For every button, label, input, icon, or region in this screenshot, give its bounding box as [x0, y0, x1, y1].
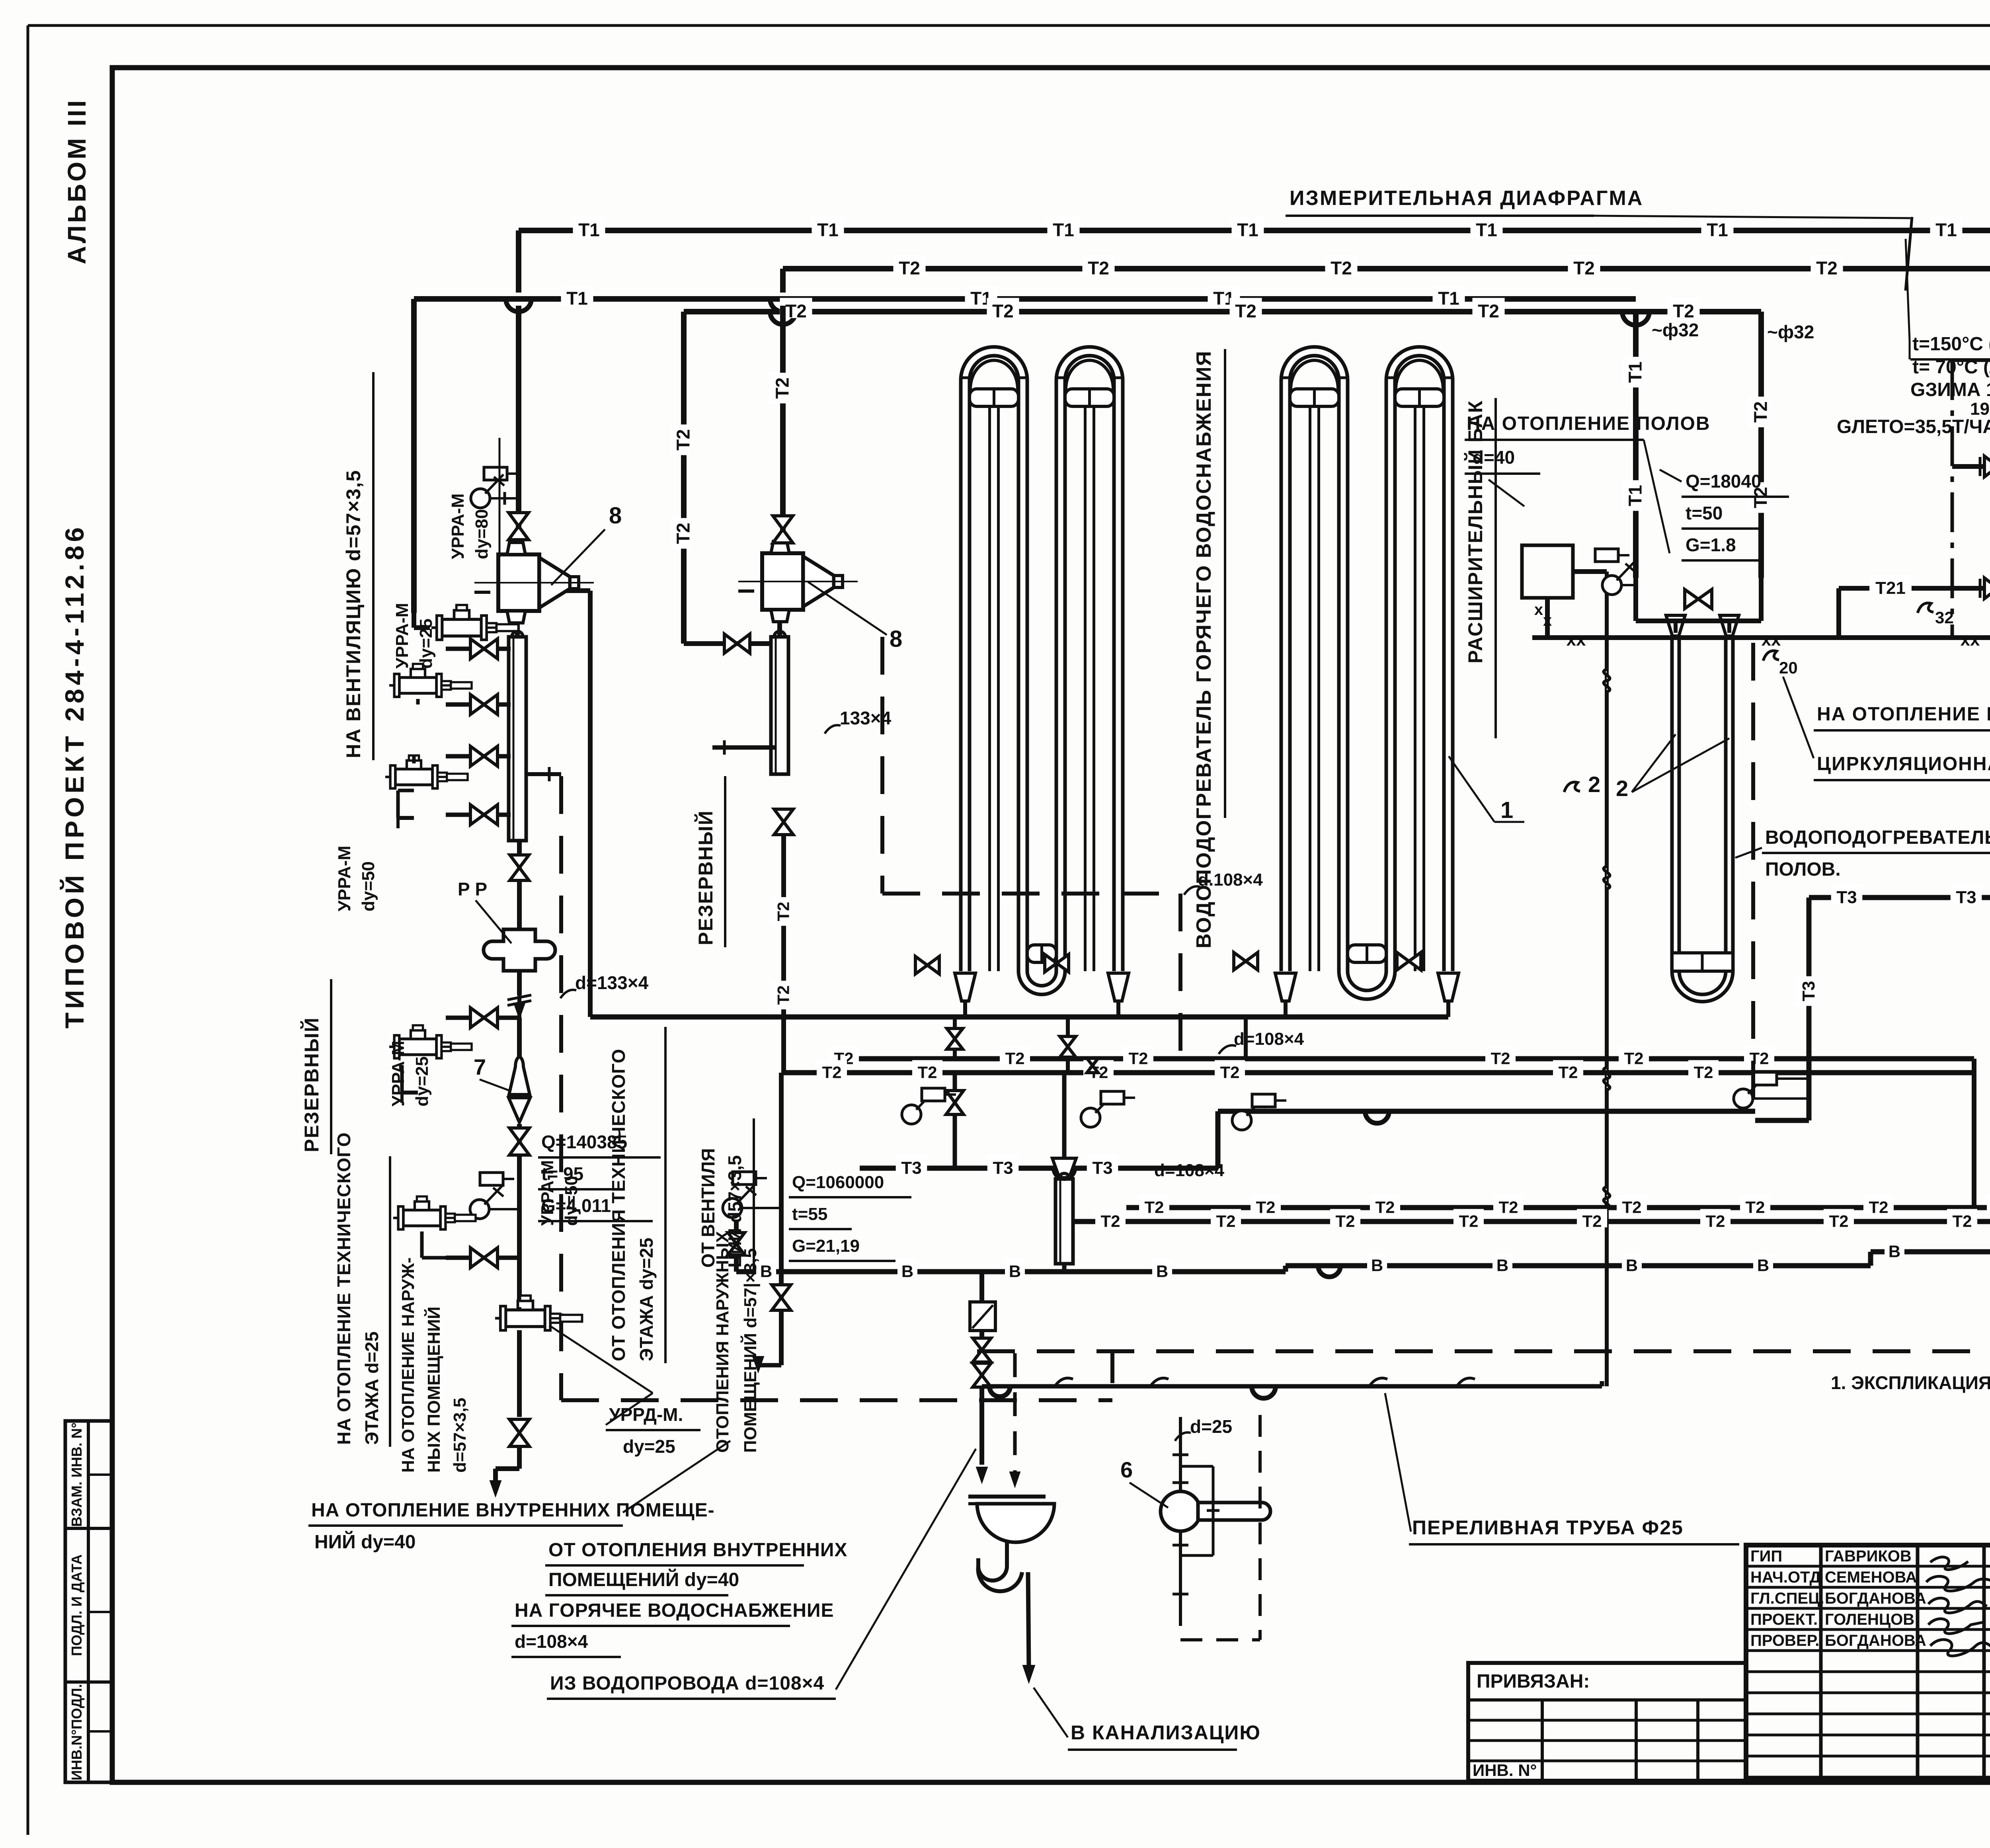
gauges row — [902, 1105, 921, 1124]
standby arrow end — [758, 1363, 781, 1368]
pipe label T2 vertical — [1748, 396, 1768, 427]
svg-text:Т2: Т2 — [1869, 1198, 1888, 1216]
svg-text:GЗИМА 18,8Т/ЧАС: GЗИМА 18,8Т/ЧАС — [1910, 379, 1990, 400]
elevator unit 8 left — [498, 554, 539, 611]
svg-text:Т2: Т2 — [774, 902, 792, 921]
svg-text:В: В — [760, 1262, 772, 1280]
svg-text:Т1: Т1 — [566, 288, 588, 309]
overflow hump — [989, 1386, 1010, 1397]
hose connection circle — [1161, 1491, 1200, 1531]
svg-text:t=150°C (ЗИМОЙ): t=150°C (ЗИМОЙ) — [1912, 333, 1990, 355]
label T2 lower a — [1987, 1195, 1990, 1214]
branch stub with valve — [446, 754, 511, 759]
pipe break squiggle — [1604, 866, 1610, 889]
svg-text:ГЛ.СПЕЦ.: ГЛ.СПЕЦ. — [1750, 1590, 1824, 1607]
gauge on riser A — [471, 489, 490, 508]
svg-text:Т3: Т3 — [993, 1158, 1013, 1178]
pipe label T2 — [1472, 298, 1504, 318]
mud separator 3 — [1062, 1073, 1067, 1158]
svg-text:d=108×4: d=108×4 — [515, 1631, 588, 1652]
svg-text:Т2: Т2 — [1498, 1198, 1518, 1216]
svg-text:Т2: Т2 — [1144, 1198, 1164, 1216]
svg-text:Т3: Т3 — [1799, 981, 1818, 1001]
pocket on riser A — [484, 467, 507, 480]
gauge standby — [723, 1198, 742, 1218]
svg-text:Т2: Т2 — [1673, 301, 1694, 322]
dashed box right drop — [1178, 894, 1182, 1071]
svg-text:20: 20 — [1779, 658, 1798, 677]
elevator unit 8 right — [762, 553, 803, 610]
pipe elevator L to vessel — [515, 623, 520, 637]
valve below vessel R — [774, 809, 793, 835]
svg-text:НЫХ ПОМЕЩЕНИЙ: НЫХ ПОМЕЩЕНИЙ — [423, 1307, 444, 1473]
svg-text:Т1: Т1 — [1053, 220, 1074, 240]
svg-text:ГОЛЕНЦОВ: ГОЛЕНЦОВ — [1825, 1611, 1914, 1628]
svg-text:Т2: Т2 — [1558, 1063, 1578, 1081]
svg-text:ВОДОПОДОГРЕВАТЕЛЬ ГОРЯЧЕГО ВОД: ВОДОПОДОГРЕВАТЕЛЬ ГОРЯЧЕГО ВОДОСНАБЖЕНИЯ — [1192, 350, 1215, 948]
svg-text:ПРОЕКТ.: ПРОЕКТ. — [1750, 1611, 1818, 1628]
riser from T2 main to elevator 2 — [780, 269, 786, 293]
svg-text:Р Р: Р Р — [458, 879, 487, 900]
T3 line low — [860, 1166, 1218, 1171]
coil outlet cone — [1108, 973, 1129, 1001]
pipe break double tick — [507, 995, 531, 1000]
svg-text:133×4: 133×4 — [840, 708, 892, 728]
overflow line — [982, 1384, 1602, 1389]
svg-text:ПРИВЯЗАН:: ПРИВЯЗАН: — [1477, 1671, 1590, 1692]
svg-text:d=40: d=40 — [1473, 447, 1515, 468]
svg-text:dу=25: dу=25 — [416, 619, 436, 669]
pipe label T1 — [1470, 217, 1502, 237]
pipe T2 return main — [783, 266, 1990, 271]
heat exchanger coil U3 — [1281, 347, 1348, 380]
svg-text:d=108×4: d=108×4 — [1154, 1161, 1225, 1180]
hump B — [1318, 1266, 1340, 1277]
svg-text:dу=80: dу=80 — [472, 509, 492, 559]
floor heating exchanger tube A — [1670, 637, 1674, 971]
svg-text:dу=25: dу=25 — [623, 1436, 675, 1457]
B water line — [736, 1269, 1286, 1274]
leader vodopodogrev otopl — [1735, 848, 1762, 858]
middle T2 right drops — [1972, 1059, 1976, 1208]
branch stub dy50 — [446, 1016, 519, 1020]
label T3 vertical — [1796, 976, 1815, 1006]
riser3 — [1244, 1017, 1248, 1059]
svg-text:Т1: Т1 — [1438, 288, 1459, 309]
svg-text:НАЧ.ОТД: НАЧ.ОТД — [1750, 1569, 1821, 1586]
svg-text:Т2: Т2 — [1128, 1049, 1148, 1067]
tank drop pipe — [1545, 598, 1550, 638]
label flow 20 — [1763, 651, 1779, 661]
pipe label T2 — [1667, 298, 1699, 318]
wave crossing on T3 — [1054, 1168, 1075, 1179]
regulator URRA-5 — [393, 1196, 476, 1229]
heat exchanger coil U2 — [1056, 347, 1123, 380]
svg-text:НА ГОРЯЧЕЕ ВОДОСНАБЖЕНИЕ: НА ГОРЯЧЕЕ ВОДОСНАБЖЕНИЕ — [515, 1600, 834, 1621]
svg-text:ИЗ ВОДОПРОВОДА d=108×4: ИЗ ВОДОПРОВОДА d=108×4 — [550, 1673, 824, 1694]
svg-text:dу=50: dу=50 — [562, 1176, 581, 1226]
overflow squiggles — [1055, 1378, 1073, 1386]
svg-text:НА ОТОПЛЕНИЕ НАРУЖ-: НА ОТОПЛЕНИЕ НАРУЖ- — [398, 1257, 418, 1473]
svg-text:Q=1060000: Q=1060000 — [792, 1173, 884, 1192]
svg-text:Т3: Т3 — [1956, 888, 1976, 907]
svg-text:Т2: Т2 — [822, 1063, 841, 1081]
pipe break squiggle — [1604, 1187, 1610, 1209]
svg-text:НА ОТОПЛЕНИЕ ПОЛОВ: НА ОТОПЛЕНИЕ ПОЛОВ — [1467, 413, 1711, 434]
stamp box sub-dividers — [88, 1473, 112, 1476]
orifice diaphragm stroke — [1906, 217, 1912, 291]
label B — [1492, 1253, 1512, 1272]
pipe label T2 — [987, 298, 1019, 318]
svg-text:Т2: Т2 — [1745, 1198, 1765, 1216]
pipe label T2 — [1229, 298, 1262, 318]
tank feed pipe — [1573, 569, 1607, 574]
title block grid — [1746, 1545, 1990, 1781]
label T2 lower b — [1824, 1209, 1854, 1227]
svg-text:d=25: d=25 — [1190, 1416, 1232, 1437]
regulator URRA-2 — [389, 664, 472, 697]
label 32 T21 — [1918, 603, 1933, 613]
svg-text:РЕЗЕРВНЫЙ: РЕЗЕРВНЫЙ — [694, 810, 717, 945]
svg-text:Т2: Т2 — [917, 1063, 937, 1081]
svg-text:ПРОВЕР.: ПРОВЕР. — [1750, 1632, 1819, 1649]
standby main drop — [781, 834, 786, 1073]
svg-text:8: 8 — [890, 626, 902, 652]
svg-text:d.108×4: d.108×4 — [1198, 870, 1263, 890]
svg-text:xx: xx — [1961, 630, 1980, 650]
label B — [897, 1259, 917, 1278]
regulator URRA-3 — [385, 755, 468, 788]
URRD below — [517, 1330, 522, 1417]
valve downcomer — [947, 1028, 963, 1049]
svg-text:УРРА-М: УРРА-М — [448, 494, 468, 559]
jumper valve between T2 pair — [1091, 1059, 1094, 1073]
svg-text:Т2: Т2 — [1088, 258, 1109, 279]
labels T3 low — [896, 1155, 927, 1174]
label T2 lower b — [1095, 1209, 1126, 1227]
diaphragm leader — [1594, 216, 1910, 218]
svg-text:Т2: Т2 — [1622, 1198, 1641, 1216]
label B — [1152, 1259, 1172, 1278]
svg-text:Т2: Т2 — [774, 985, 792, 1005]
svg-text:t= 70°C (ЛЕТОМ): t= 70°C (ЛЕТОМ) — [1912, 357, 1990, 378]
svg-text:ПЕРЕЛИВНАЯ ТРУБА Ф25: ПЕРЕЛИВНАЯ ТРУБА Ф25 — [1412, 1516, 1684, 1539]
svg-text:ПОЛОВ.: ПОЛОВ. — [1765, 859, 1841, 880]
svg-text:Т1: Т1 — [817, 220, 839, 240]
svg-text:2: 2 — [1616, 776, 1628, 801]
svg-text:ПОМЕЩЕНИЙ dу=40: ПОМЕЩЕНИЙ dу=40 — [548, 1569, 739, 1590]
svg-text:Т2: Т2 — [1235, 301, 1256, 322]
label T2 lower b — [1453, 1209, 1484, 1227]
pipe label T2 — [1325, 255, 1357, 275]
pipe label T1 — [1231, 217, 1264, 237]
svg-text:~ф32: ~ф32 — [1652, 320, 1699, 340]
pipe label T2 — [1082, 255, 1114, 275]
label T2 lower a — [1617, 1195, 1647, 1214]
svg-text:В: В — [1496, 1256, 1508, 1274]
floor heating exchanger tube B — [1724, 637, 1728, 971]
pipe label T1 — [1701, 217, 1733, 237]
pocket on T1 riser — [1595, 549, 1618, 562]
svg-text:x: x — [1543, 612, 1552, 629]
svg-text:ПОДЛ. И ДАТА: ПОДЛ. И ДАТА — [68, 1554, 85, 1656]
coil outlet cone — [1438, 973, 1459, 1001]
svg-text:УРРА-М: УРРА-М — [388, 1041, 408, 1106]
main to cone 7 — [517, 1018, 522, 1067]
svg-text:Т2: Т2 — [1459, 1212, 1478, 1230]
svg-text:xx: xx — [1762, 630, 1781, 650]
label T2 on riser 2 — [769, 373, 790, 403]
svg-text:Т2: Т2 — [785, 301, 807, 322]
standby lower drop — [779, 1073, 784, 1365]
svg-text:x: x — [1534, 601, 1543, 619]
B line left stub — [734, 1222, 739, 1272]
coil supply riser — [588, 591, 593, 1017]
svg-text:ГИП: ГИП — [1750, 1547, 1782, 1565]
svg-text:ИНВ. N°: ИНВ. N° — [1473, 1761, 1537, 1780]
floor heating header — [1633, 578, 1638, 621]
valve below cone — [517, 1124, 522, 1170]
svg-text:Т1: Т1 — [1935, 220, 1957, 240]
floor heating tube bottom bend — [1672, 971, 1733, 1002]
svg-text:УРРА-М: УРРА-М — [392, 603, 412, 669]
svg-text:ТИПОВОЙ ПРОЕКТ 284-4-112.86: ТИПОВОЙ ПРОЕКТ 284-4-112.86 — [59, 524, 89, 1028]
label T2 lower a — [1370, 1195, 1400, 1214]
label T2 middle b — [1688, 1060, 1719, 1079]
suction valve P1 — [1984, 456, 1990, 477]
svg-text:В: В — [1371, 1256, 1383, 1274]
hose bracket — [1182, 1465, 1213, 1468]
svg-text:УРРА-М: УРРА-М — [538, 1160, 557, 1226]
svg-text:Т3: Т3 — [901, 1158, 921, 1178]
gauge at T3 riser — [1734, 1089, 1753, 1108]
pipe label T1 — [1208, 285, 1240, 306]
dashed box top — [882, 892, 1180, 896]
drain down pipe — [1028, 1572, 1029, 1668]
label T2 middle b — [1553, 1060, 1583, 1079]
label T2 middle a — [1485, 1046, 1516, 1065]
pocket main low — [480, 1173, 503, 1185]
riser2 to T2 mid — [1066, 1017, 1070, 1073]
regulator URRA dy80 — [431, 605, 519, 640]
label T2 middle a — [1123, 1046, 1153, 1065]
heat exchanger coil U4 — [1386, 347, 1453, 380]
gauge on T1 riser — [1602, 576, 1621, 595]
svg-text:БОГДАНОВА: БОГДАНОВА — [1825, 1590, 1926, 1607]
svg-text:1: 1 — [1500, 797, 1513, 823]
pipe label T1 — [573, 217, 605, 237]
coil bottom bend U3-U4 — [1339, 971, 1395, 999]
svg-text:НА ВЕНТИЛЯЦИЮ d=57×3,5: НА ВЕНТИЛЯЦИЮ d=57×3,5 — [342, 470, 365, 758]
svg-text:Т2: Т2 — [1005, 1049, 1024, 1067]
pipe label T1 — [561, 285, 593, 306]
privyazan box — [1468, 1663, 1746, 1781]
label B — [1885, 1239, 1904, 1258]
tank leader — [1489, 480, 1524, 506]
svg-text:Т2: Т2 — [1491, 1049, 1510, 1067]
valve on riser to elevator R — [773, 516, 793, 543]
pipe T1 branch header — [414, 296, 1636, 302]
dashed box left — [880, 637, 884, 894]
mud separator right — [771, 637, 788, 774]
compensator box — [970, 1302, 995, 1331]
hose unit riser — [1179, 1417, 1182, 1492]
floor heating supply line xx — [1532, 635, 1990, 640]
coil outlet cone — [955, 973, 975, 1001]
svg-text:Т1: Т1 — [1625, 485, 1646, 506]
svg-text:БОГДАНОВА: БОГДАНОВА — [1825, 1632, 1926, 1649]
svg-text:2: 2 — [1588, 772, 1600, 797]
label T2 middle b — [1215, 1060, 1245, 1079]
pipe label T1 vertical — [1622, 357, 1643, 387]
leader na otopl vnutr — [623, 1441, 730, 1512]
label T2 lower a — [1740, 1195, 1770, 1214]
label T2 lower a — [1863, 1195, 1894, 1214]
riser T2 to T3 with valve — [953, 1073, 957, 1168]
svg-text:ПОМЕЩЕНИЙ d=57|×3,5: ПОМЕЩЕНИЙ d=57|×3,5 — [740, 1248, 761, 1453]
overflow drop pipe with breaks — [1605, 572, 1609, 1386]
pipe label T2 — [1568, 255, 1600, 275]
svg-text:ВОДОПОДОГРЕВАТЕЛЬ ОТОПЛЕНИЯ: ВОДОПОДОГРЕВАТЕЛЬ ОТОПЛЕНИЯ — [1765, 827, 1990, 848]
URRD assembly — [495, 1296, 582, 1330]
svg-text:ЭТАЖА d=25: ЭТАЖА d=25 — [361, 1331, 382, 1445]
leader cirk — [1783, 677, 1814, 758]
svg-text:Т2: Т2 — [1693, 1063, 1713, 1081]
valve standby low — [772, 1285, 791, 1310]
label T2 lower b — [1211, 1209, 1241, 1227]
svg-text:В: В — [1757, 1256, 1769, 1274]
label T2 middle b — [912, 1060, 942, 1079]
svg-text:Т1: Т1 — [1237, 220, 1258, 240]
note leader — [1909, 340, 1911, 359]
leader na otoplenie polov — [1644, 440, 1670, 553]
svg-text:ОТ ОТОПЛЕНИЯ ТЕХНИЧЕСКОГО: ОТ ОТОПЛЕНИЯ ТЕХНИЧЕСКОГО — [608, 1049, 629, 1361]
svg-text:~ф32: ~ф32 — [1767, 322, 1814, 342]
coil downcomers — [963, 1001, 967, 1017]
mud separator left — [509, 637, 526, 841]
svg-text:Т2: Т2 — [1216, 1212, 1235, 1230]
crossing hump on T2 header — [770, 312, 796, 324]
heat exchanger coil U1 — [961, 347, 1027, 380]
svg-text:8: 8 — [609, 503, 622, 529]
svg-text:d=133×4: d=133×4 — [575, 972, 649, 993]
riser from T1 header corner — [411, 299, 417, 613]
pipe label T2 — [780, 298, 812, 318]
dashed step — [1110, 1351, 1114, 1400]
cone pos 7 — [509, 1057, 530, 1095]
hose capsule — [1198, 1503, 1270, 1520]
svg-text:7: 7 — [474, 1054, 486, 1079]
label B — [756, 1259, 776, 1278]
elevator L outlet line — [539, 588, 590, 593]
svg-text:Т2: Т2 — [1256, 1198, 1275, 1216]
stamp box column — [65, 1421, 112, 1782]
svg-text:АЛЬБОМ III: АЛЬБОМ III — [62, 98, 91, 264]
svg-text:Т2: Т2 — [1335, 1212, 1355, 1230]
crossing hump at riser T2 — [770, 299, 796, 312]
svg-text:Т2: Т2 — [1816, 258, 1838, 279]
svg-text:Т2: Т2 — [1952, 1212, 1972, 1230]
feed to regulator dy80 — [412, 613, 416, 628]
dashed drop 2550 — [1013, 1353, 1017, 1473]
pipe label T1 — [1047, 217, 1079, 237]
branch stub with valve — [446, 703, 511, 707]
svg-text:Т2: Т2 — [1331, 258, 1352, 279]
svg-text:dу=50: dу=50 — [359, 861, 378, 911]
svg-text:Т2: Т2 — [673, 523, 694, 544]
svg-text:Т2: Т2 — [1375, 1198, 1395, 1216]
gauge main low — [470, 1200, 489, 1219]
label T21 — [1869, 575, 1912, 594]
leader pereliv — [1385, 1393, 1411, 1532]
dashed vertical floor return — [1751, 643, 1755, 1110]
svg-text:ГАВРИКОВ: ГАВРИКОВ — [1825, 1547, 1912, 1565]
svg-text:СЕМЕНОВА: СЕМЕНОВА — [1825, 1569, 1917, 1586]
URRD leader — [549, 1325, 653, 1393]
T21 header — [1839, 586, 1990, 591]
crossing hump on T1 header at riser — [506, 299, 531, 312]
label T2 middle b — [817, 1060, 847, 1079]
pipe label T2 — [893, 255, 925, 275]
coil bottom header — [590, 1015, 1448, 1020]
svg-text:В: В — [1156, 1262, 1168, 1280]
labels T2 standby — [771, 897, 790, 926]
pipe label T1 — [1930, 217, 1962, 237]
lower T2 line a — [1126, 1205, 1990, 1210]
label T2 middle a — [1000, 1046, 1030, 1065]
svg-text:Т2: Т2 — [1220, 1063, 1239, 1081]
label T2 lower b — [1330, 1209, 1360, 1227]
riser to T2 mid — [953, 1017, 957, 1059]
lower T2 line b — [1075, 1219, 1990, 1224]
label B — [1005, 1259, 1025, 1278]
solid to dashed corner — [527, 772, 561, 776]
dash-dot link line — [1952, 359, 1990, 362]
label T2 middle b — [1083, 1060, 1114, 1079]
svg-text:Т2: Т2 — [1478, 301, 1499, 322]
leader Q18040 — [1660, 470, 1682, 482]
svg-text:Т2: Т2 — [899, 258, 920, 279]
pipe label T1 — [812, 217, 844, 237]
svg-text:ИЗМЕРИТЕЛЬНАЯ ДИАФРАГМА: ИЗМЕРИТЕЛЬНАЯ ДИАФРАГМА — [1290, 187, 1643, 210]
valve on floor header — [1685, 589, 1712, 609]
flow arrow — [514, 1003, 525, 1019]
label B — [1753, 1253, 1773, 1272]
p-trap — [978, 1542, 1007, 1581]
line 133x4 branch — [712, 745, 775, 750]
svg-text:Т2: Т2 — [1582, 1212, 1602, 1230]
regulator URRA-4 — [389, 1025, 472, 1058]
svg-text:Т1: Т1 — [578, 220, 600, 240]
svg-text:6: 6 — [1120, 1457, 1133, 1482]
pocket standby — [733, 1172, 756, 1185]
svg-text:НИЙ dу=40: НИЙ dу=40 — [314, 1531, 416, 1553]
svg-text:dу=25: dу=25 — [412, 1056, 432, 1106]
svg-text:Т2: Т2 — [992, 301, 1014, 322]
svg-text:Т3: Т3 — [1092, 1158, 1112, 1178]
leader v kanalizaciyu — [1034, 1688, 1068, 1737]
svg-text:Т1: Т1 — [1625, 361, 1646, 383]
pipe label T1 — [965, 285, 997, 306]
drain arrow into funnel — [976, 1467, 987, 1483]
label T2 lower b — [1577, 1209, 1607, 1227]
pipe T2 branch header — [684, 309, 1761, 314]
svg-text:Т3: Т3 — [1836, 888, 1857, 907]
svg-text:xx: xx — [1567, 630, 1586, 650]
svg-text:ОТОПЛЕНИЯ НАРУЖНЫХ: ОТОПЛЕНИЯ НАРУЖНЫХ — [713, 1231, 732, 1453]
svg-text:Т2: Т2 — [1573, 258, 1595, 279]
pipe label T2 — [1811, 255, 1843, 275]
